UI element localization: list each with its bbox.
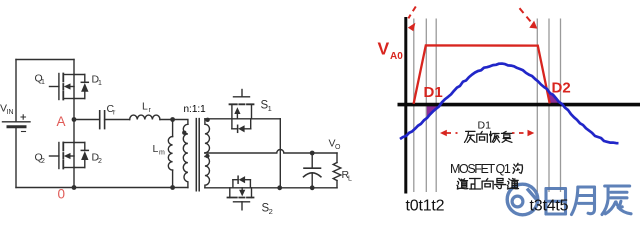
- gridline t0: [413, 19, 415, 193]
- wire secondary top to S1 and right: [205, 118, 280, 120]
- svg-text:IN: IN: [7, 109, 14, 116]
- red VA0 waveform trapezoid: [414, 45, 550, 103]
- red dashed pointer arrow right: [520, 8, 531, 21]
- svg-text:n:1:1: n:1:1: [184, 104, 207, 115]
- svg-text:2: 2: [41, 158, 45, 165]
- svg-text:t3t4t5: t3t4t5: [530, 198, 569, 215]
- svg-text:D2: D2: [552, 79, 571, 96]
- battery minus sign: [22, 131, 26, 133]
- node S2 rail junction dot: [277, 185, 282, 190]
- svg-text:2: 2: [98, 158, 102, 165]
- wire node A down to Q2 drain: [73, 120, 75, 143]
- transformer secondary polarity dot top: [205, 118, 209, 122]
- svg-text:MOSFET Q1: MOSFET Q1: [450, 162, 511, 176]
- resistor RL: [333, 153, 341, 188]
- x axis: [398, 103, 640, 107]
- shaded region D1 reverse recovery: [427, 104, 441, 119]
- diode D2 (body diode of Q2): [74, 143, 89, 168]
- node cap bottom junction dot: [310, 185, 315, 190]
- svg-text:L: L: [348, 176, 352, 183]
- transistor Q1: [50, 60, 75, 100]
- wire secondary bottom rail: [205, 187, 337, 189]
- watermark char yue: [571, 187, 594, 215]
- gridline t2: [435, 19, 437, 193]
- shaded region D2: [547, 89, 562, 104]
- node A junction dot: [72, 117, 77, 122]
- svg-text:t0t1t2: t0t1t2: [406, 198, 445, 215]
- battery plus sign: [21, 115, 26, 119]
- svg-text:A0: A0: [390, 51, 403, 62]
- svg-text:L: L: [142, 101, 148, 113]
- transformer primary polarity dot: [182, 131, 186, 135]
- wire node A to Cr: [74, 119, 100, 121]
- label gou: [513, 163, 522, 173]
- svg-text:L: L: [153, 143, 159, 155]
- svg-text:1: 1: [268, 104, 272, 113]
- node Lm junction dot: [170, 117, 175, 122]
- gridline t1: [425, 19, 427, 193]
- svg-text:V: V: [378, 39, 390, 59]
- label fan xiang hui fu (reverse recovery): [465, 131, 476, 142]
- svg-text:0: 0: [58, 187, 66, 202]
- node 0 junction dot: [72, 185, 77, 190]
- red dashed arrow pointing right: [512, 132, 524, 134]
- y axis: [404, 17, 407, 194]
- transformer primary winding: [183, 124, 188, 187]
- svg-text:2: 2: [269, 207, 273, 216]
- wire Lr to transformer: [160, 120, 188, 125]
- wire left rail upper: [15, 60, 17, 122]
- svg-text:A: A: [57, 114, 66, 129]
- transformer secondary winding top: [205, 119, 210, 153]
- label dao zheng xiang dao tong (channel forward conduction): [457, 178, 468, 189]
- node Lm bottom junction dot: [170, 185, 175, 190]
- transformer secondary winding bottom: [205, 156, 210, 187]
- red dashed arrow pointing left: [447, 132, 458, 134]
- svg-text:O: O: [335, 144, 341, 151]
- transformer secondary polarity dot middle: [205, 154, 209, 158]
- red dashed pointer arrow left: [408, 7, 415, 19]
- transistor Q2: [50, 143, 75, 169]
- watermark char ri: [546, 188, 566, 214]
- node cap top junction dot: [310, 151, 315, 156]
- svg-text:1: 1: [41, 79, 45, 86]
- watermark logo circle: [507, 184, 538, 215]
- diode D1 (body diode of Q1): [74, 75, 89, 99]
- wire Q2 source to rail 0: [73, 168, 75, 188]
- wire top rail: [16, 59, 74, 61]
- diode body of S2: [233, 176, 251, 188]
- blue current sine waveform: [400, 64, 619, 144]
- wire Cr to Lr: [105, 119, 130, 121]
- svg-text:D1: D1: [478, 119, 492, 131]
- inductor Lm: [168, 120, 172, 188]
- watermark char chen: [602, 186, 631, 215]
- inductor Lr: [130, 115, 160, 119]
- transformer core: [196, 119, 199, 191]
- transistor S1: [230, 90, 254, 119]
- diode body of S1: [232, 119, 251, 133]
- wire S1/S2 tie vertical: [279, 119, 281, 188]
- svg-text:m: m: [159, 150, 165, 157]
- wire Q1 source to node A: [73, 99, 75, 120]
- svg-text:D1: D1: [424, 84, 443, 101]
- wire bottom rail: [16, 187, 188, 189]
- transistor S2: [228, 188, 254, 210]
- gridline t4: [548, 19, 550, 193]
- gridline t5: [560, 19, 562, 193]
- battery VIN: [3, 122, 31, 188]
- capacitor output Co: [304, 153, 321, 188]
- svg-text:1: 1: [98, 80, 102, 87]
- capacitor Cr: [100, 111, 105, 129]
- wire center tap / mid rail with hop: [205, 150, 337, 154]
- gridline t3: [536, 19, 538, 193]
